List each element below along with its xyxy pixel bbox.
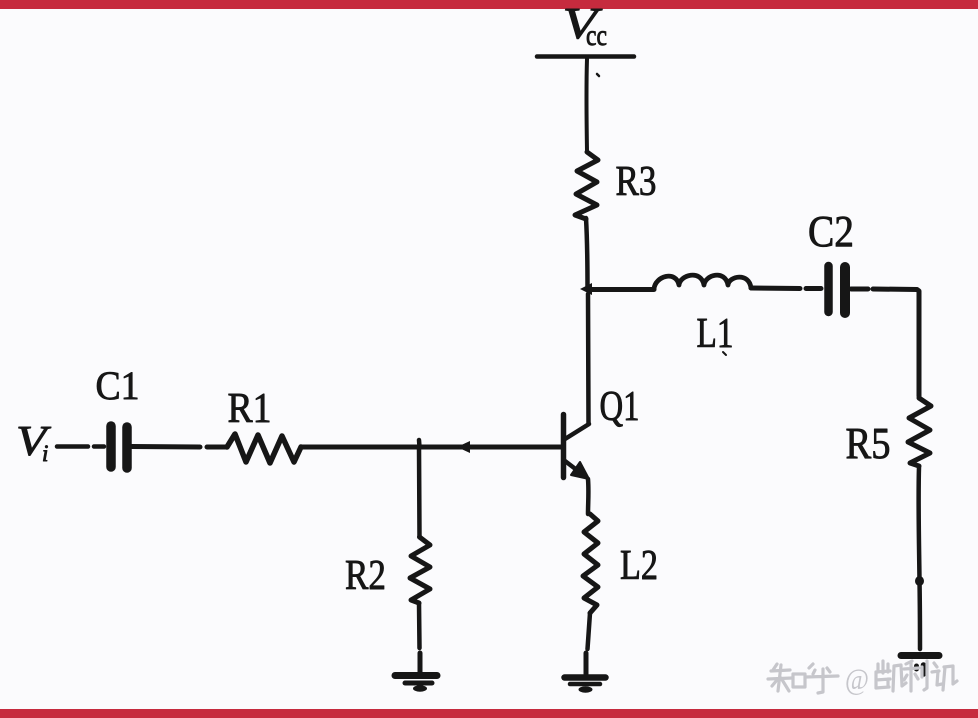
label R3 <box>616 159 657 205</box>
resistor R5 <box>908 398 931 466</box>
svg-text:@: @ <box>845 663 869 696</box>
node collector junction <box>580 283 592 295</box>
wire Vcc rail to R3 <box>586 59 599 151</box>
wire C2 to R5 <box>851 289 919 396</box>
svg-text:R1: R1 <box>228 386 272 432</box>
svg-text:R5: R5 <box>846 419 891 468</box>
svg-text:C1: C1 <box>96 363 140 408</box>
resistor R3 <box>575 152 598 219</box>
wire L1 to C2 <box>751 286 821 292</box>
svg-text:Q1: Q1 <box>600 384 640 430</box>
wire R5 to ground <box>915 467 924 649</box>
wire L2 to ground <box>588 613 591 649</box>
label L1 <box>697 311 734 357</box>
wire R1 to Q1 base <box>302 445 561 450</box>
inductor L1 <box>654 275 751 289</box>
svg-text:C2: C2 <box>808 207 854 256</box>
svg-text:R2: R2 <box>345 553 386 599</box>
wire R3 to collector node <box>586 218 588 288</box>
transistor Q1 <box>564 415 590 480</box>
resistor R2 <box>410 537 430 603</box>
wire collector node to Q1 <box>586 294 591 424</box>
ground L2 <box>565 653 606 693</box>
ground R5 <box>901 656 939 675</box>
svg-text:i: i <box>42 441 48 466</box>
svg-text:L1: L1 <box>697 311 734 357</box>
inductor L2 <box>583 514 598 613</box>
input Vi label <box>16 418 52 466</box>
resistor R1 <box>227 434 301 463</box>
capacitor C1 <box>111 426 127 468</box>
label L2 <box>620 543 658 589</box>
watermark zhihu <box>768 661 957 696</box>
label Q1 <box>600 384 640 430</box>
wire Q1 emitter to L2 <box>586 479 591 514</box>
label R5 <box>846 419 891 468</box>
wire C1 to R1 <box>132 444 227 450</box>
wire node to R2 <box>417 447 422 537</box>
svg-text:R3: R3 <box>616 159 657 205</box>
wire Vi to C1 <box>57 444 104 449</box>
svg-text:cc: cc <box>586 19 607 52</box>
arrow on base wire <box>457 441 470 453</box>
net Vcc label <box>563 0 608 52</box>
junction base and R2 node <box>417 440 422 447</box>
label C2 <box>808 207 854 256</box>
label R1 <box>228 386 272 432</box>
wire R2 to ground <box>417 603 422 648</box>
capacitor C2 <box>829 266 846 313</box>
Vcc power rail <box>537 54 634 59</box>
label R2 <box>345 553 386 599</box>
svg-text:L2: L2 <box>620 543 658 589</box>
wire node to L1 <box>588 287 654 292</box>
ground R2 <box>395 653 437 692</box>
label C1 <box>96 363 140 408</box>
